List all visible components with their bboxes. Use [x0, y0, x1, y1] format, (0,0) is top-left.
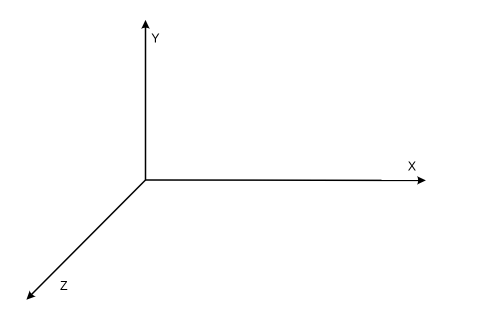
X axis arrowhead	[417, 176, 426, 185]
Z axis	[30, 180, 146, 297]
svg-text:Z: Z	[60, 279, 68, 293]
Y axis	[145, 24, 147, 180]
Y axis arrowhead	[141, 20, 150, 29]
svg-text:X: X	[408, 160, 417, 174]
Z axis arrowhead	[23, 290, 36, 303]
X axis	[146, 179, 423, 181]
svg-text:Y: Y	[151, 32, 160, 46]
